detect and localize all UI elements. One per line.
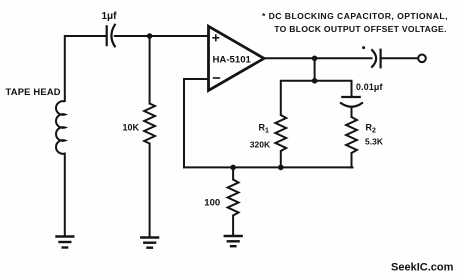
wire cap 0.01 to R2 xyxy=(351,107,353,117)
asterisk near dc cap xyxy=(362,46,365,49)
wire top-left horizontal from tape head to 1uF cap xyxy=(65,36,107,101)
output terminal circle xyxy=(418,55,426,63)
svg-text:10K: 10K xyxy=(123,123,140,133)
ground (tape head) xyxy=(55,237,74,248)
wire output node down xyxy=(314,58,316,81)
resistor 100 xyxy=(228,180,239,216)
svg-text:R1: R1 xyxy=(259,122,270,134)
op-amp U1 HA-5101 xyxy=(209,26,265,90)
svg-text:* DC BLOCKING CAPACITOR, OPTIO: * DC BLOCKING CAPACITOR, OPTIONAL, xyxy=(262,11,448,21)
ground (100) xyxy=(224,236,243,246)
resistor R1 320K xyxy=(275,115,286,151)
svg-text:TO BLOCK OUTPUT OFFSET VOLTAGE: TO BLOCK OUTPUT OFFSET VOLTAGE. xyxy=(274,24,446,34)
wire minus input to feedback vertical xyxy=(184,79,209,167)
wire node down to 10K xyxy=(149,36,151,104)
wire tape head coil bottom to ground xyxy=(64,154,66,237)
ground (10K) xyxy=(140,238,159,248)
capacitor 0.01uF xyxy=(340,97,363,107)
wire R1 bottom xyxy=(280,151,282,167)
inductor L tape head xyxy=(56,101,65,154)
svg-text:0.01μf: 0.01μf xyxy=(356,82,383,92)
wire 10K bottom to ground xyxy=(149,144,151,238)
wire op-amp output xyxy=(263,57,372,59)
svg-text:HA-5101: HA-5101 xyxy=(213,55,252,66)
resistor 10K xyxy=(144,104,155,144)
svg-text:1μf: 1μf xyxy=(102,11,118,22)
svg-text:320K: 320K xyxy=(250,140,271,150)
wire feedback top horizontal xyxy=(281,81,352,115)
node junction dots xyxy=(147,33,318,170)
wire 100 resistor bottom to ground xyxy=(232,216,234,236)
wire 100 resistor top xyxy=(232,167,234,179)
capacitor C1 1uF xyxy=(107,24,116,47)
svg-text:R2: R2 xyxy=(366,123,377,135)
capacitor DC blocking xyxy=(371,49,380,69)
svg-text:SeekIC.com: SeekIC.com xyxy=(391,262,454,274)
svg-text:5.3K: 5.3K xyxy=(365,137,384,147)
svg-text:100: 100 xyxy=(204,197,220,208)
wire dc cap to output terminal xyxy=(382,57,419,59)
wire feedback bottom horizontal xyxy=(184,166,353,168)
wire R2 bottom xyxy=(351,153,353,167)
wire cap to op-amp plus input xyxy=(115,35,209,37)
svg-text:TAPE HEAD: TAPE HEAD xyxy=(6,86,61,97)
resistor R2 5.3K xyxy=(346,117,357,153)
